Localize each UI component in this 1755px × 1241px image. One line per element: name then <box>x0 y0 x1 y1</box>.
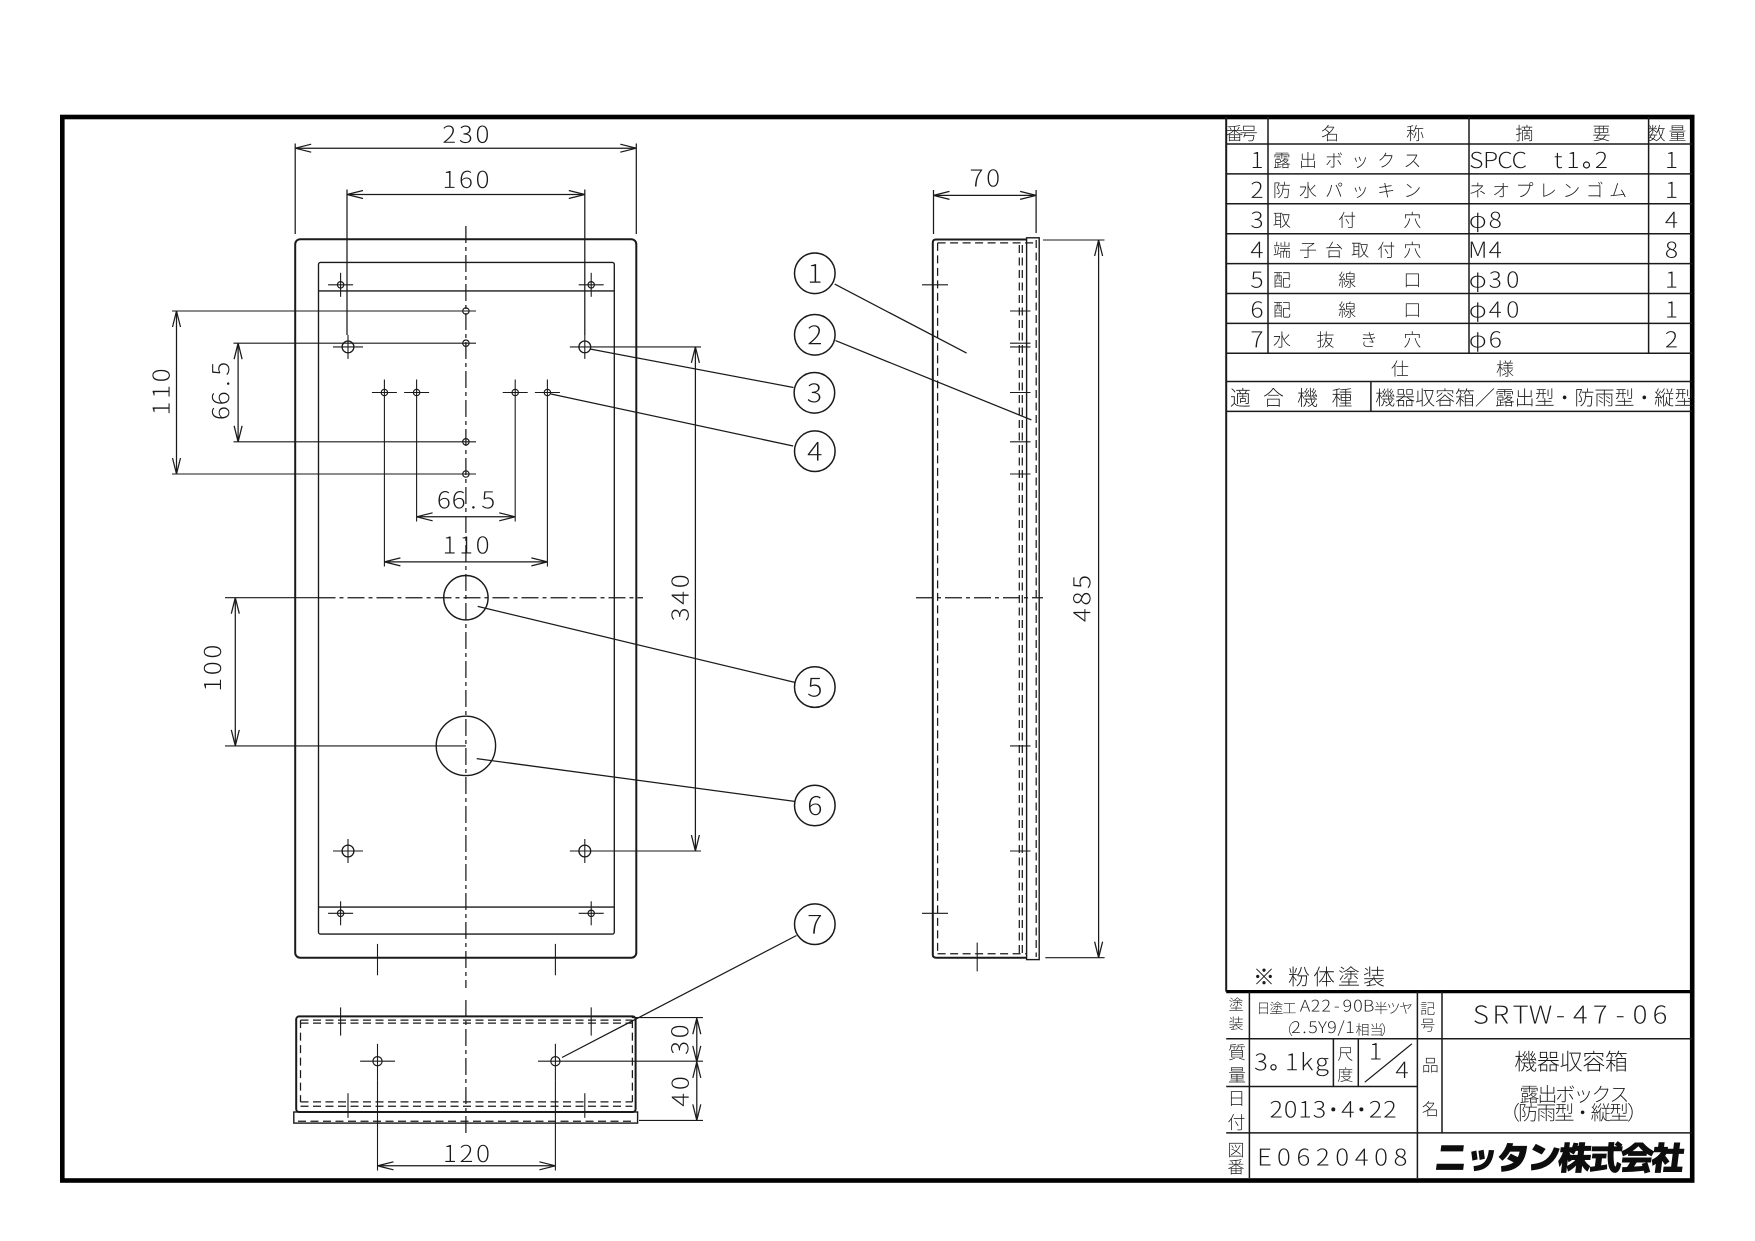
front view top strip line <box>319 290 615 292</box>
side view tick on bottom edge <box>976 943 978 972</box>
wiring hole phi40 (item 6) <box>436 716 495 775</box>
title block grid <box>1226 992 1692 1178</box>
dim 100 vertical left between wiring holes <box>204 598 318 746</box>
drawing number cell <box>1228 1143 1406 1175</box>
bottom view vertical centerline <box>465 1000 467 1137</box>
top strip mounting hole right <box>588 282 594 288</box>
terminal strip holes M4 horizontal row (item 4) <box>381 389 387 395</box>
dim 110 horizontal center <box>384 406 547 567</box>
dim 230 top width <box>295 126 636 234</box>
table applicable-model row <box>1231 388 1693 407</box>
mounting hole phi8 top-left (item 3) <box>342 341 354 353</box>
bottom view projection ticks bottom band <box>348 1093 585 1118</box>
dim 340 vertical right <box>671 347 699 851</box>
leader line for balloon 5 <box>478 606 796 682</box>
side view ticks on left wall <box>922 285 948 914</box>
bottom strip mounting hole right <box>588 910 594 916</box>
balloon 6 <box>795 785 836 826</box>
dim 40 bottom view <box>639 1062 703 1121</box>
leader line for balloon 7 <box>562 936 797 1058</box>
dim 485 side view height <box>1043 240 1105 958</box>
front view vertical centerline <box>465 226 467 988</box>
dim 110 vertical left <box>152 311 476 474</box>
dim 120 drain hole spacing <box>378 1080 556 1170</box>
table rows 1-7 <box>1251 152 1677 352</box>
date cell <box>1228 1091 1395 1130</box>
drain hole phi6 left (item 7) <box>373 1057 382 1066</box>
wiring hole phi30 (item 5) <box>444 576 488 620</box>
side view hidden lines <box>938 240 1037 957</box>
ticks below front view bottom edge <box>377 944 379 975</box>
terminal strip holes M4 vertical column (item 4) <box>463 308 469 314</box>
front view bottom strip line <box>319 906 615 908</box>
leader line for balloon 1 <box>835 284 967 353</box>
leader line for balloon 4 <box>551 394 793 446</box>
balloon 5 <box>795 667 836 708</box>
front view inner flange rect <box>319 262 615 934</box>
dim 66.5 horizontal center <box>417 406 516 522</box>
side view hole-row ticks on flange <box>1010 311 1031 851</box>
dim 66.5 vertical left <box>212 343 476 442</box>
front view outer box <box>295 239 636 958</box>
leader line for balloon 3 <box>590 349 794 388</box>
powder coating note <box>1256 966 1384 986</box>
paint spec cell <box>1229 997 1411 1036</box>
scale cell <box>1338 1043 1412 1082</box>
balloon 2 <box>795 315 836 356</box>
product name cell <box>1422 1051 1632 1122</box>
drain hole phi6 right (item 7) <box>551 1057 560 1066</box>
balloon 3 <box>794 373 835 414</box>
table header row <box>1226 125 1685 141</box>
leader line for balloon 2 <box>836 341 1032 420</box>
side view box outline <box>933 240 1027 958</box>
top strip mounting hole left <box>337 282 343 288</box>
bottom view body outline <box>296 1016 635 1112</box>
dim 160 hole spacing width <box>347 171 585 335</box>
balloon 4 <box>795 431 836 472</box>
mounting hole phi8 top-right (item 3) <box>579 341 591 353</box>
balloon 7 <box>795 904 836 945</box>
bottom view lip <box>294 1112 638 1123</box>
table spec row (shiyou) <box>1391 360 1513 376</box>
bottom view projection ticks top edge <box>341 1007 592 1035</box>
side view back flange plate <box>1027 238 1040 960</box>
company logo NITTAN <box>1435 1141 1685 1173</box>
balloon 1 <box>795 253 836 294</box>
parts table grid <box>1226 117 1692 992</box>
drawing sheet frame <box>62 117 1692 1181</box>
front view horizontal centerline at wiring hole 5 <box>319 597 644 599</box>
bottom strip mounting hole left <box>337 910 343 916</box>
mounting hole phi8 bottom-left (item 3) <box>342 845 354 857</box>
bottom view hidden lines <box>298 1020 634 1121</box>
side view center mark <box>916 597 1043 599</box>
leader line for balloon 6 <box>477 759 796 802</box>
mass cell <box>1229 1044 1329 1082</box>
dim 70 side view depth <box>934 169 1037 234</box>
mounting hole phi8 bottom-right (item 3) <box>579 845 591 857</box>
symbol (kigou) cell <box>1421 1002 1666 1032</box>
dim 30 bottom view <box>632 1018 703 1062</box>
